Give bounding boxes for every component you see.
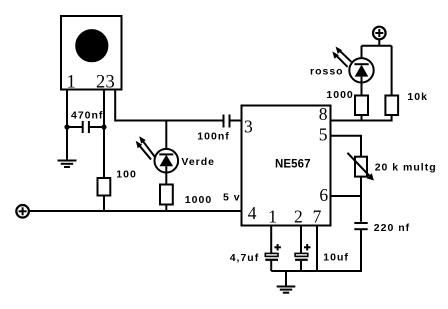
- svg-text:470nf: 470nf: [71, 110, 103, 122]
- wire left branch to LED: [361, 46, 363, 58]
- power terminal +V: [373, 27, 386, 40]
- svg-text:5: 5: [319, 125, 328, 145]
- svg-text:10k: 10k: [407, 91, 428, 103]
- svg-text:100nf: 100nf: [197, 130, 229, 142]
- wire 5v rail: [29, 210, 242, 212]
- svg-text:10uf: 10uf: [323, 252, 349, 264]
- svg-text:3: 3: [106, 73, 115, 93]
- wire cap left: [67, 126, 83, 128]
- LED D1 verde: [155, 149, 179, 173]
- wire IC pin1 down: [270, 226, 272, 254]
- resistor R2 1000: [160, 185, 173, 205]
- svg-text:NE567: NE567: [275, 159, 311, 171]
- wire pin6 to C5: [360, 196, 362, 222]
- wire R3 to pin8 wire: [361, 115, 363, 121]
- svg-text:100: 100: [116, 169, 137, 181]
- wire pin1 sensor down: [66, 90, 68, 127]
- wire LED verde top: [165, 121, 167, 150]
- sensor box U2: [61, 16, 122, 90]
- svg-text:4,7uf: 4,7uf: [230, 252, 260, 264]
- node dot right: [101, 124, 106, 129]
- svg-text:2: 2: [96, 73, 105, 93]
- sensor lens: [76, 30, 107, 61]
- potentiometer P1 20k: [347, 153, 374, 181]
- svg-text:220 nf: 220 nf: [374, 222, 410, 234]
- wire cap right: [89, 126, 104, 128]
- wire C5 down to rail: [271, 229, 361, 271]
- ground stem bottom: [285, 271, 287, 286]
- svg-text:1000: 1000: [185, 194, 212, 206]
- wire IC pin7 down: [316, 226, 318, 272]
- op-amp U1 NE567 body: [242, 106, 331, 226]
- svg-text:8: 8: [319, 104, 328, 124]
- wire right branch to R4: [391, 46, 393, 96]
- svg-text:5 v: 5 v: [223, 192, 241, 204]
- wire pin3 sensor elbow: [115, 90, 223, 121]
- svg-text:rosso: rosso: [310, 66, 344, 78]
- wire R2 to rail: [165, 205, 167, 212]
- wire pin2 sensor down: [103, 90, 105, 178]
- LED D1 arrows: [136, 136, 155, 159]
- LED D2 arrows: [332, 47, 351, 67]
- wire pin6: [331, 195, 362, 197]
- wire IC pin2 down: [300, 226, 302, 254]
- input terminal J1: [16, 205, 29, 218]
- svg-text:1000: 1000: [326, 89, 353, 101]
- svg-text:7: 7: [313, 206, 322, 226]
- wire to ground left: [66, 127, 68, 160]
- wire resistor R1 to rail: [103, 196, 105, 212]
- capacitor C2 100nf plates: [223, 115, 225, 128]
- resistor R1 100: [98, 178, 111, 196]
- svg-text:20 k multg: 20 k multg: [375, 162, 437, 174]
- ground GND1: [58, 161, 77, 168]
- capacitor C4 10uf: [295, 244, 310, 271]
- node dot left: [64, 124, 69, 129]
- resistor R4 10k: [385, 96, 398, 116]
- capacitor C5 220nf plates: [354, 222, 367, 224]
- svg-text:1: 1: [268, 206, 277, 226]
- wire LED to R2: [165, 173, 167, 185]
- wire pin5: [331, 136, 362, 157]
- capacitor C3 4.7uf: [265, 244, 281, 271]
- svg-text:1: 1: [67, 73, 76, 93]
- wire C2 to IC pin3: [230, 120, 242, 122]
- svg-text:6: 6: [319, 185, 328, 205]
- LED D2 rosso: [349, 58, 373, 82]
- wire pin8: [331, 115, 392, 121]
- capacitor C1 470nf plates: [82, 121, 84, 133]
- svg-text:3: 3: [244, 116, 253, 136]
- wire top branch: [362, 45, 392, 47]
- svg-text:Verde: Verde: [181, 156, 215, 168]
- ground GND2: [277, 287, 296, 293]
- resistor R3 1000: [355, 96, 368, 116]
- svg-text:2: 2: [294, 206, 303, 226]
- svg-text:4: 4: [248, 203, 257, 223]
- wire pot to pin6: [360, 177, 362, 196]
- wire LED to R3: [361, 83, 363, 96]
- wire from +V down: [378, 39, 380, 46]
